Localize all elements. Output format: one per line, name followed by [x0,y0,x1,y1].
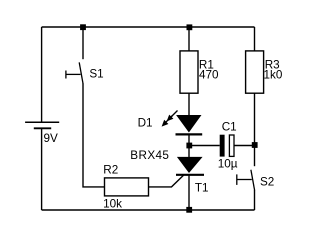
wire S1 branch upper [82,27,84,59]
resistor R1 [180,51,198,93]
svg-text:C1: C1 [222,120,237,133]
battery 9V [25,122,59,128]
wire R2 to T1 gate [149,175,184,187]
wire R1 to D1 [188,93,190,115]
resistor R3 [246,51,264,93]
capacitor C1 [220,135,234,157]
wire top rail [42,26,255,28]
switch S1 [66,62,83,83]
svg-text:S2: S2 [260,176,274,189]
svg-text:10µ: 10µ [218,157,238,170]
svg-text:9V: 9V [44,132,59,145]
wire R3 to S2 [254,93,256,166]
svg-text:T1: T1 [195,182,209,195]
switch S2 [237,170,255,191]
thyristor T1 BRX45 [176,157,204,174]
node junction top S1 branch [80,24,86,30]
wire T1 to bottom rail [188,175,190,210]
svg-text:BRX45: BRX45 [130,149,169,162]
svg-text:1k0: 1k0 [264,68,283,81]
wire left rail upper [41,27,43,122]
LED D1 [162,111,203,135]
wire left rail lower [41,128,43,210]
wire bottom rail [42,209,255,211]
node junction D1 C1 [186,143,192,149]
svg-text:D1: D1 [138,116,153,129]
svg-text:10k: 10k [103,197,122,210]
wire top to R1 [188,27,190,51]
node junction top R1 branch [187,24,193,30]
node junction C1 right rail [252,142,258,148]
resistor R2 [105,178,149,196]
wire C1 left [189,145,220,147]
wire S1 to R2 [83,83,105,187]
svg-text:470: 470 [199,69,219,82]
svg-text:R2: R2 [103,164,118,177]
svg-text:S1: S1 [89,68,103,81]
wire C1 right [234,145,254,147]
wire D1 to T1 [188,134,190,157]
wire right rail upper [254,27,256,51]
wire S2 to bottom rail [254,190,256,210]
node junction bottom rail [186,207,192,213]
